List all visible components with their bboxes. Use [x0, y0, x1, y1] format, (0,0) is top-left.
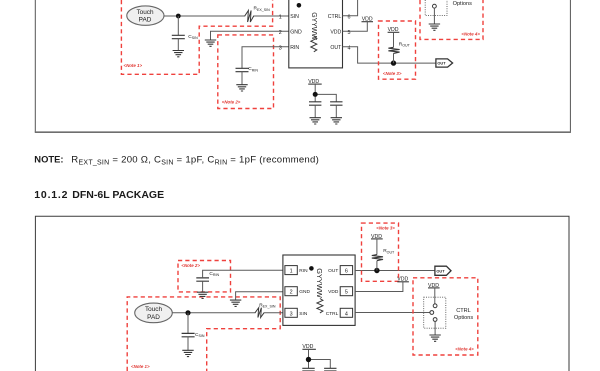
capacitor C_SIN (top figure) — [172, 35, 185, 38]
wire: touch pad to SIN pin (top figure) — [164, 15, 289, 17]
svg-text:CTRL: CTRL — [326, 311, 339, 317]
ground at GND pin (top figure) — [205, 40, 216, 46]
svg-text:<Note 2>: <Note 2> — [181, 263, 200, 268]
VDD rail at pin 5 (bottom figure) — [397, 277, 409, 283]
svg-text:REX_SIN: REX_SIN — [259, 302, 276, 308]
pin 5 box (bottom figure) — [340, 287, 352, 296]
touch pad (bottom figure) — [135, 303, 173, 323]
wire: OUT pin 6 to output node (bottom figure) — [355, 270, 435, 272]
svg-text:PAD: PAD — [147, 314, 160, 321]
svg-text:SIN: SIN — [299, 311, 308, 317]
decoupling capacitor 2 (top figure) — [330, 102, 342, 105]
note 1 boundary (top figure, red dashed) — [121, 0, 272, 74]
OUT connector flag (top figure) — [436, 59, 453, 67]
svg-text:10.1.2: 10.1.2 — [34, 189, 68, 201]
svg-text:<Note 1>: <Note 1> — [124, 63, 143, 68]
ground below C_RIN (top figure) — [236, 85, 247, 91]
resistor R_OUT (bottom figure, compressed zigzag) — [372, 255, 383, 261]
wire: VDD rail to R_OUT (bottom figure) — [376, 239, 378, 271]
svg-text:REXT_SIN = 200 Ω, CSIN = 1pF,: REXT_SIN = 200 Ω, CSIN = 1pF, CRIN = 1pF… — [71, 154, 319, 166]
wire: pin 5 to VDD rail (top figure) — [343, 22, 368, 32]
note text line — [34, 153, 319, 166]
note 3 box (bottom figure, red dashed) — [362, 223, 399, 281]
svg-text:ROUT: ROUT — [399, 41, 411, 47]
capacitor C_SIN (bottom figure) — [182, 333, 195, 336]
VDD rail at pin 5 (top figure) — [362, 17, 374, 23]
svg-text:CSIN: CSIN — [195, 332, 205, 338]
switch contact circle upper (bottom figure) — [433, 304, 437, 308]
svg-text:<Note 4>: <Note 4> — [461, 31, 480, 36]
switch contact circle (top figure) — [433, 4, 437, 8]
ground at GND pin (bottom figure) — [230, 300, 241, 306]
svg-text:GYYWW: GYYWW — [315, 268, 324, 298]
svg-text:GND: GND — [299, 289, 310, 295]
svg-text:CRIN: CRIN — [209, 271, 219, 277]
svg-text:OUT: OUT — [330, 45, 342, 51]
svg-text:CRIN: CRIN — [248, 66, 258, 72]
wire: cap 2 to ground (top figure) — [335, 105, 337, 118]
wire: VDD rail to switch (bottom figure) — [434, 288, 436, 304]
wire: VDD rail to R_OUT (top figure) — [393, 32, 395, 63]
svg-text:2: 2 — [290, 290, 293, 296]
svg-text:OUT: OUT — [436, 269, 445, 274]
pin 3 box (bottom figure) — [285, 308, 297, 317]
wire: C_SIN to ground (top figure) — [177, 39, 179, 51]
svg-text:<Note 3>: <Note 3> — [383, 71, 402, 76]
pin 1 marker dot (top figure) — [297, 3, 302, 8]
svg-text:GYYWW: GYYWW — [310, 12, 317, 40]
svg-text:<Note 2>: <Note 2> — [222, 99, 241, 104]
switch dotted box (bottom figure) — [424, 297, 446, 328]
svg-text:5: 5 — [345, 290, 348, 296]
resistor R_EX_SIN (top figure) — [245, 11, 254, 23]
touch pad (top figure) — [127, 6, 164, 25]
svg-text:Options: Options — [454, 315, 473, 321]
pin 2 box (bottom figure) — [285, 287, 297, 296]
wire: C_RIN to RIN pin 1 (bottom figure) — [203, 270, 283, 278]
decoupling capacitor 1 (bottom figure) — [302, 368, 314, 371]
wire: OUT pin 4 to output node (top figure) — [343, 47, 436, 63]
svg-text:6: 6 — [348, 14, 351, 20]
ground below cap 2 (top figure) — [331, 118, 342, 124]
switch contact circle lower (bottom figure) — [433, 318, 437, 322]
svg-text:3: 3 — [290, 311, 293, 317]
wire: C_RIN to ground (bottom figure) — [202, 281, 204, 292]
VDD decoupling rail below IC (bottom figure, cropped at bottom) — [302, 344, 316, 350]
resistor R_EX_SIN (bottom figure) — [255, 308, 264, 318]
svg-text:<Note 1>: <Note 1> — [131, 364, 150, 369]
note 3 box (top figure, red dashed) — [379, 21, 416, 79]
VDD rail of ctrl options (bottom figure) — [428, 283, 440, 289]
svg-text:VDD: VDD — [328, 289, 339, 295]
svg-text:REX_SIN: REX_SIN — [254, 6, 271, 12]
junction node at touch pad (top figure) — [176, 14, 181, 19]
pin 6 box (bottom figure) — [340, 266, 352, 275]
figure frame (bottom figure, cropped at bottom) — [35, 216, 569, 371]
VDD rail above R_OUT (bottom figure) — [371, 234, 383, 240]
svg-text:DFN-6L PACKAGE: DFN-6L PACKAGE — [72, 189, 164, 201]
svg-text:<Note 3>: <Note 3> — [376, 226, 395, 231]
wire: switch to ground (bottom figure) — [434, 321, 436, 335]
wire: CTRL pin 4 to options switch (bottom figure) — [355, 312, 430, 314]
wire: C_RIN to ground (top figure) — [241, 72, 243, 85]
note 2 box (bottom figure, red dashed) — [178, 261, 231, 292]
VDD rail above R_OUT (top figure) — [388, 27, 400, 33]
label CTRL Options (bottom figure) — [454, 308, 473, 321]
svg-text:Options: Options — [453, 1, 472, 7]
wire: C_SIN to ground (bottom figure) — [187, 337, 189, 351]
svg-text:1: 1 — [279, 14, 282, 20]
pin 1 marker dot (bottom figure) — [309, 266, 314, 271]
svg-text:ROUT: ROUT — [383, 248, 395, 254]
switch dotted box (top figure, cropped) — [425, 0, 447, 16]
wire: cap 1 to ground (top figure) — [314, 105, 316, 118]
sensor coil symbol inside IC (top figure) — [311, 36, 317, 51]
svg-text:6: 6 — [345, 269, 348, 275]
note 2 box (top figure, red dashed) — [218, 35, 274, 109]
svg-text:5: 5 — [348, 30, 351, 36]
svg-text:GND: GND — [290, 30, 302, 36]
wire: touch pad to SIN pin 3 (bottom figure) — [172, 312, 283, 314]
capacitor C_RIN (bottom figure) — [196, 278, 209, 281]
wire: junction down to C_SIN (top figure) — [177, 16, 179, 35]
note 4 box (top figure, red dashed, cropped at top) — [420, 0, 483, 39]
capacitor C_RIN (top figure) — [236, 68, 249, 71]
wire: CTRL pin 6 up to control network (top figure) — [343, 0, 358, 16]
pin 1 box (bottom figure) — [285, 266, 297, 275]
junction node of decoupling (top figure) — [313, 92, 318, 97]
svg-text:NOTE:: NOTE: — [34, 153, 63, 164]
svg-text:PAD: PAD — [139, 16, 152, 23]
OUT connector flag (bottom figure) — [435, 266, 451, 275]
svg-text:Touch: Touch — [136, 9, 153, 16]
wire: switch to ground (top figure) — [433, 8, 435, 24]
svg-text:RIN: RIN — [299, 268, 308, 274]
decoupling capacitor 2 (bottom figure) — [324, 368, 336, 371]
wire: VDD rail to decoupling caps (bottom figure) — [309, 349, 331, 368]
wire: GND pin 2 to ground (bottom figure) — [236, 292, 283, 300]
note 4 box (bottom figure, red dashed) — [413, 278, 478, 355]
figure frame (top figure, cropped at top) — [35, 0, 571, 132]
ground below cap 1 (top figure) — [310, 118, 321, 124]
switch contact circle middle (bottom figure) — [430, 311, 434, 315]
svg-text:4: 4 — [345, 311, 348, 317]
ground below C_SIN (top figure) — [173, 51, 184, 57]
decoupling capacitor 1 (top figure) — [309, 102, 321, 105]
junction node at R_OUT (top figure) — [391, 60, 396, 65]
svg-text:RIN: RIN — [290, 45, 299, 51]
svg-text:<Note 4>: <Note 4> — [455, 346, 474, 351]
ground of ctrl options (bottom figure) — [429, 335, 440, 341]
ground below C_RIN (bottom figure) — [197, 292, 208, 298]
junction node at touch pad (bottom figure) — [185, 310, 190, 315]
svg-text:SIN: SIN — [290, 14, 299, 20]
pin 4 box (bottom figure) — [340, 308, 352, 317]
ground below C_SIN (bottom figure) — [182, 350, 193, 356]
wire: pin 5 to VDD rail (bottom figure) — [355, 282, 403, 292]
IC U2 (bottom figure, DFN-6L package) — [283, 255, 355, 325]
svg-text:OUT: OUT — [437, 61, 446, 66]
junction node at R_OUT (bottom figure) — [374, 268, 379, 273]
svg-text:4: 4 — [348, 45, 351, 51]
VDD decoupling rail below IC (top figure) — [308, 79, 322, 85]
svg-text:CTRL: CTRL — [328, 14, 342, 20]
sensor coil symbol inside IC (bottom figure) — [317, 299, 323, 313]
svg-text:Touch: Touch — [145, 306, 162, 313]
svg-text:OUT: OUT — [328, 268, 338, 274]
resistor R_OUT (top figure, compressed zigzag) — [388, 47, 399, 53]
svg-text:CTRL: CTRL — [456, 308, 471, 314]
svg-text:VDD: VDD — [330, 30, 341, 36]
wire: GND pin to ground (top figure) — [211, 31, 289, 40]
ground of ctrl options (top figure) — [429, 24, 440, 30]
wire: VDD rail to decoupling caps (top figure) — [315, 84, 336, 102]
svg-text:3: 3 — [279, 45, 282, 51]
note 1 boundary (bottom figure, red dashed) — [127, 297, 280, 371]
junction node of decoupling (bottom figure) — [306, 357, 311, 362]
svg-text:1: 1 — [290, 269, 293, 275]
wire: RIN pin to C_RIN (top figure) — [242, 47, 289, 69]
op IC U1 (top figure, 6-pin package, cropped at top) — [289, 0, 343, 68]
svg-text:CSIN: CSIN — [188, 34, 198, 40]
svg-text:2: 2 — [279, 30, 282, 36]
wire: junction to C_SIN (bottom figure) — [187, 313, 189, 334]
